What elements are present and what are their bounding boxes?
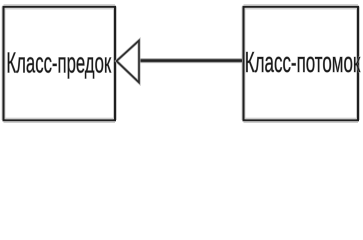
svg-text:Класс-предок: Класс-предок — [6, 47, 111, 79]
svg-text:Класс-потомок: Класс-потомок — [245, 47, 361, 79]
